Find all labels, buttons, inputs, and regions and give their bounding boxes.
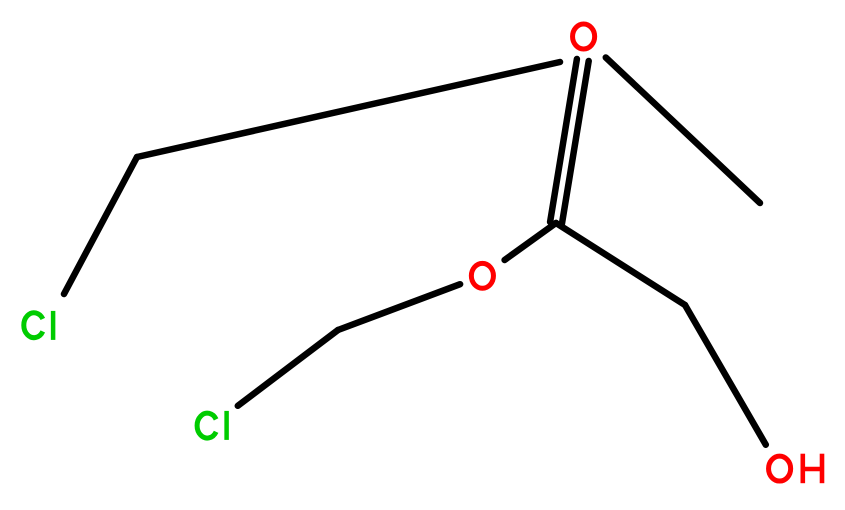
atom label OH (hydroxyl) (769, 454, 822, 484)
wire double bond line A (562, 61, 589, 224)
wire bond C2 to OH (685, 305, 766, 445)
wire chain bond C-C long diagonal (137, 62, 560, 157)
wire bond CH2 to Cl label 2 (238, 330, 338, 406)
wire bond C1 to ether O (505, 223, 556, 260)
wire bond C-Cl to Cl label 1 (64, 157, 137, 294)
wire bond C1 to C2 (556, 223, 685, 305)
wire bond ether O to CH2 (338, 284, 460, 330)
atom label O middle (ether oxygen) (471, 263, 493, 288)
wire double bond line B (550, 59, 577, 222)
atom label O top (ketone oxygen) (573, 24, 595, 49)
atom label Cl left (chlorine 1) (24, 311, 53, 340)
wire bond O to terminal carbon (606, 58, 760, 204)
atom label Cl lower (chlorine 2) (197, 411, 227, 440)
